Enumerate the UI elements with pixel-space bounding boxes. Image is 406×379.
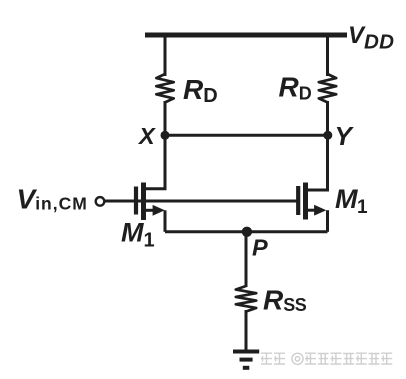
M1 left drain horizontal <box>146 187 167 190</box>
resistor RSS <box>236 286 256 312</box>
svg-text:RD: RD <box>183 74 218 107</box>
node X junction dot <box>161 131 170 140</box>
VDD supply rail <box>145 33 347 38</box>
common gate wire from input to both gates <box>105 200 297 203</box>
wire node X to node Y <box>165 134 328 137</box>
svg-text:M1: M1 <box>335 184 368 218</box>
node Y junction dot <box>323 131 332 140</box>
wire node X down to M1 left drain <box>164 135 167 190</box>
wire rail to RD left <box>164 35 167 76</box>
M1 left gate bar <box>134 187 138 215</box>
svg-text:RSS: RSS <box>263 285 307 316</box>
svg-text:VDD: VDD <box>348 22 394 54</box>
svg-text:Y: Y <box>335 121 355 151</box>
ground symbol <box>233 350 259 354</box>
svg-text:X: X <box>137 123 156 149</box>
tail rail joining both sources <box>165 230 328 233</box>
node P junction dot <box>242 227 252 237</box>
resistor RD right <box>319 74 336 102</box>
M1 right source down to tail <box>326 210 329 232</box>
M1 left source wire with arrow <box>146 209 157 212</box>
M1 right channel bar <box>303 183 308 220</box>
M1 left channel bar <box>141 183 146 221</box>
resistor RD left <box>156 74 173 102</box>
wire RD right to node Y <box>326 101 329 135</box>
svg-text:RD: RD <box>279 72 312 104</box>
watermark zhihu <box>261 353 392 364</box>
wire node Y down to M1 right drain <box>326 135 329 191</box>
svg-text:P: P <box>252 235 268 261</box>
M1 right source wire with arrow <box>308 209 319 212</box>
M1 right gate bar <box>296 186 300 215</box>
M1 left source down to tail <box>164 210 167 232</box>
svg-text:M1: M1 <box>121 218 155 252</box>
M1 right source arrowhead <box>314 205 326 216</box>
input terminal circle <box>96 197 105 206</box>
wire RSS to ground <box>245 310 248 351</box>
M1 right drain horizontal <box>308 189 329 192</box>
svg-text:Vin,CM: Vin,CM <box>17 184 88 215</box>
M1 left source arrowhead <box>153 205 165 216</box>
wire RD left to node X <box>164 101 167 135</box>
wire node P down to RSS <box>245 232 248 287</box>
wire rail to RD right <box>326 35 329 76</box>
